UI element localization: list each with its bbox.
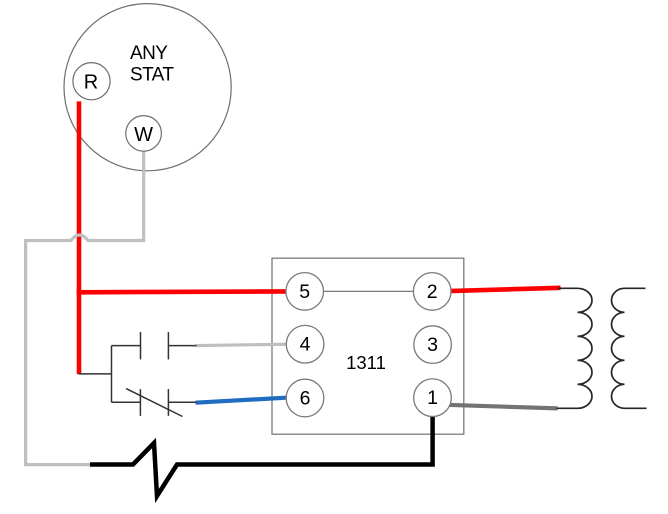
- svg-text:4: 4: [300, 334, 311, 356]
- relay terminal 5: [286, 273, 324, 311]
- svg-text:6: 6: [300, 388, 311, 410]
- wire: red from terminal 2 to transformer primary: [445, 288, 561, 291]
- wire: red from junction to terminal 5: [77, 289, 295, 294]
- wire: internal link terminal 5 to terminal 2: [305, 290, 433, 292]
- svg-text:1311: 1311: [346, 352, 386, 373]
- relay terminal 6: [286, 379, 324, 417]
- wire: black power line with break symbol, from gray splice to terminal 1: [90, 410, 433, 496]
- svg-text:3: 3: [427, 334, 438, 356]
- relay terminal 4: [286, 325, 324, 363]
- svg-text:2: 2: [427, 281, 438, 303]
- contact NC (normally closed) bottom branch: [112, 389, 197, 417]
- transformer T1 secondary winding: [612, 288, 647, 408]
- relay box 1311: [272, 258, 464, 434]
- wire: blue from NC contact to terminal 6: [196, 397, 296, 403]
- relay terminal 2: [413, 273, 451, 311]
- wire: light gray from W with hop over red, down left side, to bottom: [26, 151, 144, 465]
- svg-text:STAT: STAT: [130, 65, 174, 86]
- transformer T1 primary winding: [557, 288, 593, 408]
- svg-text:ANY: ANY: [130, 43, 168, 64]
- terminal W on thermostat: [126, 116, 162, 152]
- wire: thin stub from red junction to contact bus: [79, 373, 112, 375]
- relay terminal 3: [414, 326, 452, 364]
- wire: red from R down to junction: [77, 101, 82, 374]
- svg-text:1: 1: [427, 387, 438, 409]
- wire: contact bus vertical: [111, 346, 113, 403]
- relay terminal 1: [414, 379, 452, 417]
- svg-text:5: 5: [299, 281, 310, 303]
- wire: dark gray from terminal 1 to transformer primary bottom: [446, 405, 558, 409]
- thermostat body (ANY STAT circle): [64, 4, 231, 171]
- terminal R on thermostat: [73, 63, 110, 100]
- svg-text:W: W: [134, 124, 153, 146]
- svg-text:R: R: [84, 72, 98, 94]
- contact NO (normally open) top branch: [112, 332, 197, 359]
- wire: light gray from NO contact to terminal 4: [196, 344, 296, 346]
